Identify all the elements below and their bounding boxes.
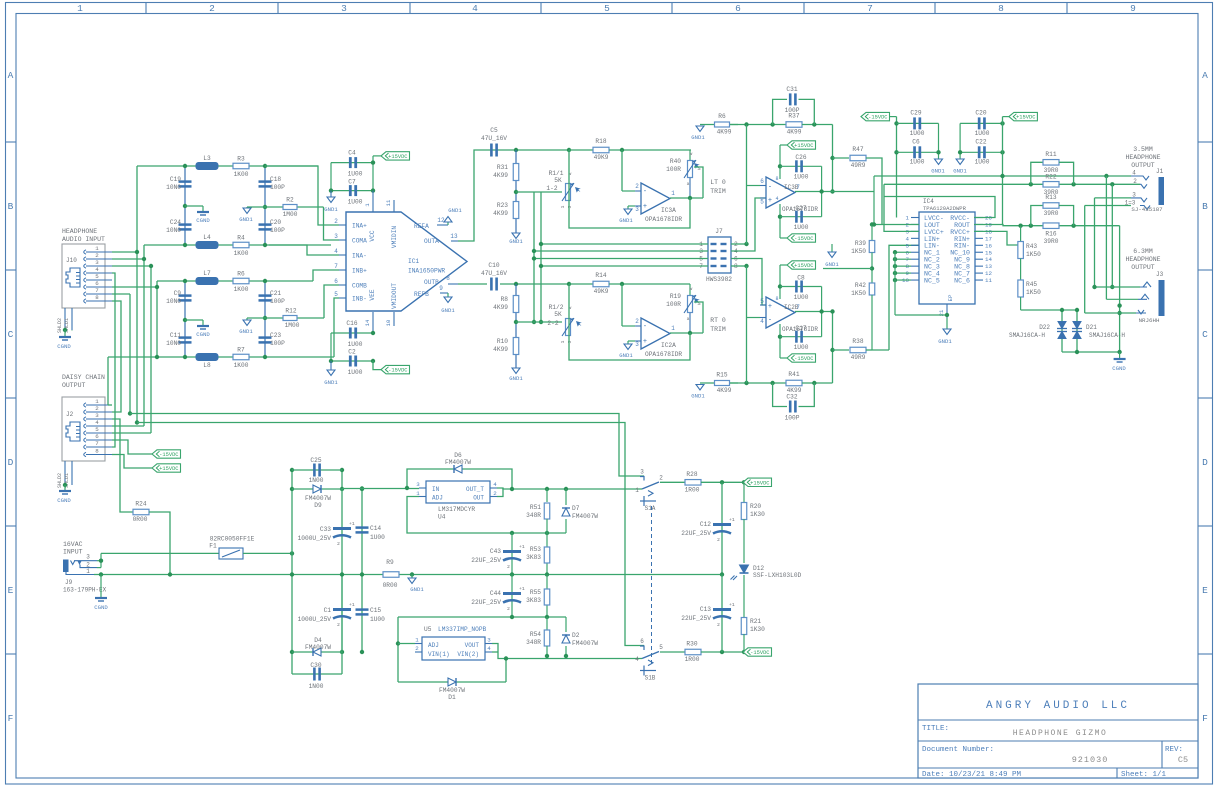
svg-text:D: D — [8, 457, 14, 468]
svg-text:11: 11 — [985, 277, 992, 284]
svg-text:INA-: INA- — [352, 253, 367, 260]
svg-text:R24: R24 — [135, 501, 146, 508]
svg-text:348R: 348R — [526, 512, 541, 519]
svg-text:R41: R41 — [788, 371, 799, 378]
svg-text:49K9: 49K9 — [594, 154, 609, 161]
svg-text:GND1: GND1 — [691, 134, 705, 141]
svg-text:-: - — [643, 188, 647, 196]
svg-text:-: - — [768, 184, 772, 192]
svg-text:C19: C19 — [170, 176, 181, 183]
svg-text:IN: IN — [432, 486, 440, 493]
svg-text:3.5MM: 3.5MM — [1133, 146, 1153, 153]
svg-text:2: 2 — [493, 490, 497, 497]
svg-text:4K99: 4K99 — [493, 346, 508, 353]
svg-text:4: 4 — [487, 645, 491, 652]
svg-text:-: - — [643, 323, 647, 331]
svg-text:U5: U5 — [424, 626, 432, 633]
svg-text:NRJ6HH: NRJ6HH — [1139, 317, 1160, 324]
svg-text:NC_6: NC_6 — [954, 277, 970, 284]
svg-text:Sheet: 1/1: Sheet: 1/1 — [1121, 771, 1167, 779]
svg-text:TITLE:: TITLE: — [922, 725, 949, 733]
svg-text:D4: D4 — [314, 637, 322, 644]
svg-text:C10: C10 — [488, 262, 499, 269]
svg-text:R13: R13 — [1045, 194, 1056, 201]
svg-text:1K30: 1K30 — [750, 511, 765, 518]
svg-text:A: A — [1202, 70, 1208, 81]
svg-text:1U00: 1U00 — [910, 130, 925, 137]
svg-text:16: 16 — [985, 242, 992, 249]
svg-text:1U00: 1U00 — [975, 159, 990, 166]
svg-text:4: 4 — [472, 3, 478, 14]
svg-text:3: 3 — [635, 206, 639, 213]
svg-text:OUT_T: OUT_T — [466, 486, 484, 493]
svg-text:HEADPHONE: HEADPHONE — [62, 228, 97, 235]
svg-text:14: 14 — [985, 256, 992, 263]
svg-text:R21: R21 — [750, 618, 761, 625]
svg-text:1M00: 1M00 — [285, 322, 300, 329]
svg-text:1U00: 1U00 — [794, 174, 809, 181]
svg-text:C20: C20 — [270, 219, 281, 226]
svg-text:2: 2 — [95, 405, 99, 412]
svg-text:100P: 100P — [270, 298, 285, 305]
svg-text:11: 11 — [385, 199, 392, 206]
svg-text:D6: D6 — [454, 452, 462, 459]
svg-text:-15VDC: -15VDC — [868, 115, 887, 121]
svg-text:D: D — [1202, 457, 1208, 468]
svg-text:C: C — [1202, 329, 1208, 340]
svg-text:C9: C9 — [174, 290, 182, 297]
svg-text:4: 4 — [775, 196, 778, 202]
svg-text:-: - — [768, 317, 772, 325]
svg-text:3: 3 — [567, 340, 573, 343]
svg-text:1R00: 1R00 — [685, 487, 700, 494]
svg-text:1N00: 1N00 — [309, 683, 324, 690]
svg-text:IC1: IC1 — [408, 258, 419, 265]
svg-text:2-2: 2-2 — [547, 320, 558, 327]
svg-text:C16: C16 — [346, 320, 357, 327]
svg-text:49R9: 49R9 — [851, 162, 866, 169]
svg-text:R18: R18 — [595, 138, 606, 145]
svg-text:a: a — [687, 182, 690, 187]
svg-text:1U00: 1U00 — [348, 199, 363, 206]
svg-text:100P: 100P — [785, 415, 800, 422]
svg-text:RIN-: RIN- — [954, 243, 970, 250]
svg-text:1U00: 1U00 — [794, 294, 809, 301]
svg-text:2: 2 — [337, 541, 340, 547]
svg-text:22UF_25V: 22UF_25V — [681, 530, 711, 537]
svg-text:2: 2 — [1133, 178, 1137, 185]
svg-text:7: 7 — [95, 287, 99, 294]
svg-text:GND1: GND1 — [239, 328, 253, 335]
svg-text:NC_9: NC_9 — [954, 257, 970, 264]
svg-text:LOUT: LOUT — [924, 222, 940, 229]
svg-text:R1/2: R1/2 — [549, 304, 564, 311]
svg-text:-15VDC: -15VDC — [388, 368, 407, 374]
svg-text:GND1: GND1 — [410, 586, 424, 593]
svg-text:E: E — [8, 585, 14, 596]
svg-text:9: 9 — [439, 285, 443, 292]
svg-text:6: 6 — [760, 178, 764, 185]
svg-text:10N0: 10N0 — [166, 340, 181, 347]
svg-text:1: 1 — [560, 340, 566, 343]
svg-text:R51: R51 — [530, 504, 541, 511]
svg-text:J9: J9 — [65, 579, 73, 586]
svg-text:+15VDC: +15VDC — [794, 143, 813, 149]
svg-text:22UF_25V: 22UF_25V — [471, 599, 501, 606]
svg-text:C31: C31 — [786, 86, 797, 93]
svg-text:4K99: 4K99 — [717, 387, 732, 394]
svg-text:R23: R23 — [497, 202, 508, 209]
svg-text:1: 1 — [95, 398, 99, 405]
svg-text:NC_5: NC_5 — [924, 277, 940, 284]
svg-text:15: 15 — [985, 249, 992, 256]
svg-text:R2: R2 — [286, 197, 294, 204]
svg-text:R45: R45 — [1026, 281, 1037, 288]
svg-text:C14: C14 — [370, 525, 381, 532]
svg-text:R3: R3 — [237, 156, 245, 163]
svg-text:GND1: GND1 — [619, 217, 633, 224]
svg-text:8: 8 — [95, 294, 99, 301]
svg-text:R19: R19 — [670, 293, 681, 300]
svg-text:INPUT: INPUT — [63, 549, 83, 556]
svg-text:FM4007W: FM4007W — [572, 640, 598, 647]
svg-text:EP: EP — [947, 294, 954, 301]
svg-text:2: 2 — [415, 645, 419, 652]
svg-text:1U00: 1U00 — [348, 341, 363, 348]
svg-text:OUTPUT: OUTPUT — [1131, 162, 1155, 169]
svg-text:NC_4: NC_4 — [924, 271, 940, 278]
svg-text:49R9: 49R9 — [851, 354, 866, 361]
svg-text:3: 3 — [95, 259, 99, 266]
svg-text:+15VDC: +15VDC — [1016, 115, 1035, 121]
svg-text:INA+: INA+ — [352, 223, 367, 230]
svg-text:C15: C15 — [370, 607, 381, 614]
svg-text:R9: R9 — [386, 559, 394, 566]
svg-text:R54: R54 — [530, 631, 541, 638]
svg-text:+15VDC: +15VDC — [159, 466, 178, 472]
svg-text:GND1: GND1 — [938, 338, 952, 345]
svg-text:4K99: 4K99 — [787, 129, 802, 136]
svg-text:C24: C24 — [170, 219, 181, 226]
svg-text:R8: R8 — [501, 296, 509, 303]
svg-text:FM4007W: FM4007W — [439, 687, 465, 694]
svg-text:6: 6 — [95, 280, 99, 287]
svg-text:+: + — [643, 203, 647, 211]
svg-text:C: C — [8, 329, 14, 340]
svg-text:4K99: 4K99 — [493, 304, 508, 311]
svg-text:OUTPUT: OUTPUT — [1131, 264, 1155, 271]
svg-text:VIN(2): VIN(2) — [457, 651, 479, 658]
svg-text:J7: J7 — [715, 228, 723, 235]
svg-text:1K50: 1K50 — [1026, 251, 1041, 258]
svg-text:C12: C12 — [700, 521, 711, 528]
svg-text:2: 2 — [95, 252, 99, 259]
svg-text:39R0: 39R0 — [1044, 210, 1059, 217]
svg-text:1R00: 1R00 — [685, 656, 700, 663]
svg-text:INB-: INB- — [352, 296, 367, 303]
svg-text:R30: R30 — [686, 641, 697, 648]
svg-text:5: 5 — [95, 273, 99, 280]
svg-text:D9: D9 — [314, 502, 322, 509]
svg-text:7: 7 — [95, 440, 99, 447]
svg-text:-15VDC: -15VDC — [159, 452, 178, 458]
svg-text:B: B — [1202, 201, 1208, 212]
svg-text:A: A — [8, 70, 14, 81]
svg-text:348R: 348R — [526, 639, 541, 646]
svg-text:1K00: 1K00 — [234, 286, 249, 293]
svg-text:47U_16V: 47U_16V — [481, 135, 507, 142]
svg-text:4K99: 4K99 — [717, 129, 732, 136]
svg-text:1U00: 1U00 — [370, 534, 385, 541]
svg-text:C2: C2 — [348, 349, 356, 356]
svg-text:NC_1: NC_1 — [924, 250, 940, 257]
svg-text:LIN-: LIN- — [924, 243, 940, 250]
svg-text:C13: C13 — [700, 606, 711, 613]
svg-text:C25: C25 — [310, 457, 321, 464]
svg-text:5K: 5K — [554, 311, 562, 318]
svg-text:1N00: 1N00 — [309, 477, 324, 484]
svg-text:SMAJ16CA-H: SMAJ16CA-H — [1009, 332, 1045, 339]
svg-text:C33: C33 — [320, 526, 331, 533]
svg-text:4: 4 — [95, 419, 99, 426]
svg-text:8: 8 — [95, 448, 99, 455]
svg-text:3K83: 3K83 — [526, 554, 541, 561]
svg-text:1U00: 1U00 — [975, 130, 990, 137]
svg-text:1: 1 — [560, 205, 566, 208]
svg-text:SSF-LXH103L0D: SSF-LXH103L0D — [753, 572, 802, 579]
svg-text:w: w — [690, 152, 693, 157]
svg-text:C21: C21 — [270, 290, 281, 297]
svg-text:100P: 100P — [270, 340, 285, 347]
svg-text:OUTA: OUTA — [424, 238, 439, 245]
svg-text:2: 2 — [635, 183, 639, 190]
svg-text:GND1: GND1 — [509, 375, 523, 382]
svg-text:GND1: GND1 — [448, 207, 462, 214]
svg-text:CGND: CGND — [1112, 365, 1126, 372]
svg-text:7: 7 — [334, 263, 338, 270]
svg-text:1000U_25V: 1000U_25V — [298, 535, 332, 542]
svg-text:L4: L4 — [203, 234, 211, 241]
svg-text:C29: C29 — [910, 110, 921, 117]
svg-text:D2: D2 — [572, 632, 580, 639]
svg-text:10N0: 10N0 — [166, 298, 181, 305]
svg-text:1: 1 — [415, 637, 419, 644]
svg-text:GND1: GND1 — [825, 261, 839, 268]
svg-text:17: 17 — [985, 235, 992, 242]
svg-text:C5: C5 — [490, 127, 498, 134]
svg-text:+15VDC: +15VDC — [388, 154, 407, 160]
svg-text:1M00: 1M00 — [283, 211, 298, 218]
svg-text:VIN(1): VIN(1) — [428, 651, 450, 658]
svg-text:+15VDC: +15VDC — [750, 480, 769, 486]
svg-text:100R: 100R — [666, 301, 681, 308]
svg-text:6: 6 — [334, 278, 338, 285]
svg-text:100P: 100P — [785, 107, 800, 114]
svg-text:DAISY CHAIN: DAISY CHAIN — [62, 374, 105, 381]
svg-text:R20: R20 — [750, 503, 761, 510]
svg-text:LVCC-: LVCC- — [924, 215, 944, 222]
svg-text:L3: L3 — [203, 155, 211, 162]
svg-text:7: 7 — [796, 184, 800, 191]
svg-text:TRIM: TRIM — [710, 326, 726, 333]
svg-text:1K50: 1K50 — [851, 290, 866, 297]
svg-text:R11: R11 — [1045, 151, 1056, 158]
svg-text:1U00: 1U00 — [794, 344, 809, 351]
svg-text:R16: R16 — [1045, 231, 1056, 238]
svg-text:C7: C7 — [348, 179, 356, 186]
svg-text:2: 2 — [717, 537, 720, 543]
svg-text:RT 0: RT 0 — [710, 317, 726, 324]
svg-text:6.3MM: 6.3MM — [1133, 248, 1153, 255]
svg-text:OPA1678IDR: OPA1678IDR — [645, 351, 682, 358]
svg-text:ROUT: ROUT — [954, 222, 970, 229]
svg-text:J3: J3 — [1156, 271, 1164, 278]
svg-text:2: 2 — [334, 218, 338, 225]
svg-text:1000U_25V: 1000U_25V — [298, 616, 332, 623]
svg-text:LM337IMP_NOPB: LM337IMP_NOPB — [438, 626, 487, 633]
svg-text:D22: D22 — [1039, 324, 1050, 331]
svg-text:16VAC: 16VAC — [63, 541, 83, 548]
svg-text:13: 13 — [450, 233, 458, 240]
svg-text:GND1: GND1 — [931, 168, 945, 175]
svg-text:TRIM: TRIM — [710, 188, 726, 195]
svg-text:C30: C30 — [310, 662, 321, 669]
svg-text:L8: L8 — [203, 362, 211, 369]
svg-text:47U_16V: 47U_16V — [481, 270, 507, 277]
svg-text:R6: R6 — [718, 113, 726, 120]
svg-text:C18: C18 — [270, 176, 281, 183]
svg-text:F: F — [1202, 713, 1208, 724]
svg-text:IC3A: IC3A — [661, 207, 676, 214]
svg-text:+1: +1 — [349, 602, 355, 608]
svg-text:13: 13 — [985, 263, 992, 270]
svg-text:CGND: CGND — [57, 497, 71, 504]
svg-text:R38: R38 — [852, 338, 863, 345]
svg-text:R12: R12 — [285, 308, 296, 315]
svg-text:NC_10: NC_10 — [950, 250, 970, 257]
svg-text:7: 7 — [796, 304, 800, 311]
svg-text:HEADPHONE GIZMO: HEADPHONE GIZMO — [1013, 729, 1108, 738]
svg-text:2: 2 — [507, 564, 510, 570]
svg-text:R4: R4 — [237, 235, 245, 242]
svg-text:R15: R15 — [716, 372, 727, 379]
svg-text:E: E — [1202, 585, 1208, 596]
svg-text:100P: 100P — [270, 227, 285, 234]
svg-text:3: 3 — [487, 637, 491, 644]
svg-text:GND1: GND1 — [509, 238, 523, 245]
svg-text:REFA: REFA — [414, 223, 429, 230]
svg-text:CGND: CGND — [196, 331, 210, 338]
svg-text:1U00: 1U00 — [910, 159, 925, 166]
svg-text:R6: R6 — [237, 271, 245, 278]
svg-text:C11: C11 — [170, 332, 181, 339]
svg-text:C44: C44 — [490, 590, 501, 597]
svg-text:SJ-435187: SJ-435187 — [1131, 206, 1163, 213]
svg-text:J2: J2 — [66, 411, 74, 418]
svg-text:163-179PH-EX: 163-179PH-EX — [63, 587, 107, 594]
svg-text:1: 1 — [95, 245, 99, 252]
svg-text:J10: J10 — [66, 257, 77, 264]
svg-text:3: 3 — [95, 412, 99, 419]
svg-text:COMB: COMB — [352, 283, 367, 290]
svg-text:1: 1 — [635, 487, 639, 494]
svg-text:NC_3: NC_3 — [924, 264, 940, 271]
svg-text:4: 4 — [334, 248, 338, 255]
svg-text:+1: +1 — [349, 521, 355, 527]
svg-text:VEE: VEE — [369, 289, 376, 300]
svg-text:10N0: 10N0 — [166, 184, 181, 191]
svg-text:2: 2 — [209, 3, 215, 14]
svg-text:R42: R42 — [855, 282, 866, 289]
svg-text:IC4: IC4 — [923, 198, 934, 205]
svg-text:LVCC+: LVCC+ — [924, 229, 944, 236]
svg-text:GND1: GND1 — [324, 379, 338, 386]
svg-text:IC2A: IC2A — [661, 342, 676, 349]
svg-text:6: 6 — [735, 3, 741, 14]
svg-text:C5: C5 — [1178, 755, 1188, 765]
svg-text:R28: R28 — [686, 471, 697, 478]
svg-text:49K9: 49K9 — [594, 288, 609, 295]
svg-text:8: 8 — [446, 275, 450, 282]
svg-text:C1: C1 — [324, 607, 332, 614]
svg-text:VMIDIN: VMIDIN — [391, 226, 398, 249]
svg-text:FM4007W: FM4007W — [305, 495, 331, 502]
svg-text:+1: +1 — [519, 544, 525, 550]
svg-text:8: 8 — [775, 296, 778, 302]
svg-text:3: 3 — [567, 205, 573, 208]
svg-text:5: 5 — [760, 298, 764, 305]
svg-text:FM4007W: FM4007W — [305, 644, 331, 651]
svg-text:1: 1 — [671, 325, 675, 332]
svg-text:4K99: 4K99 — [493, 210, 508, 217]
svg-text:LM317MDCYR: LM317MDCYR — [438, 506, 475, 513]
svg-text:0R00: 0R00 — [383, 582, 398, 589]
svg-text:4: 4 — [493, 481, 497, 488]
svg-text:-15VDC: -15VDC — [794, 236, 813, 242]
svg-text:a: a — [687, 317, 690, 322]
svg-text:2: 2 — [717, 622, 720, 628]
svg-text:C32: C32 — [786, 394, 797, 401]
svg-text:3: 3 — [86, 554, 90, 561]
svg-text:1U00: 1U00 — [794, 224, 809, 231]
svg-text:F: F — [8, 713, 14, 724]
svg-text:R40: R40 — [670, 158, 681, 165]
svg-text:5: 5 — [95, 426, 99, 433]
svg-text:VCC: VCC — [369, 230, 376, 241]
svg-text:9: 9 — [1130, 3, 1136, 14]
svg-text:3: 3 — [341, 3, 347, 14]
svg-text:4: 4 — [760, 318, 764, 325]
svg-text:R10: R10 — [497, 338, 508, 345]
svg-text:7: 7 — [867, 3, 873, 14]
svg-text:HEADPHONE: HEADPHONE — [1125, 154, 1160, 161]
svg-text:2: 2 — [507, 606, 510, 612]
svg-text:1K50: 1K50 — [1026, 289, 1041, 296]
svg-text:3: 3 — [416, 481, 420, 488]
svg-text:GND1: GND1 — [619, 352, 633, 359]
svg-text:B: B — [8, 201, 14, 212]
svg-text:RVCC+: RVCC+ — [950, 229, 970, 236]
svg-text:+: + — [768, 197, 772, 205]
svg-text:FM4007W: FM4007W — [445, 459, 471, 466]
svg-text:+1: +1 — [729, 517, 735, 523]
svg-text:R31: R31 — [497, 164, 508, 171]
svg-text:ADJ: ADJ — [432, 495, 443, 502]
svg-text:12: 12 — [437, 217, 445, 224]
svg-text:5: 5 — [906, 242, 910, 249]
svg-text:INA1650PWR: INA1650PWR — [408, 268, 445, 275]
svg-text:R14: R14 — [595, 272, 606, 279]
